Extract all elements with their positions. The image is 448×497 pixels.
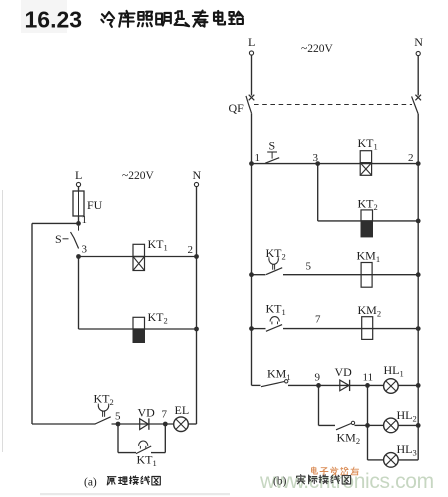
breaker QF dashed link xyxy=(254,104,412,106)
node 7 xyxy=(162,409,168,427)
node 3 (a) xyxy=(76,244,87,259)
wire fuse to node 1 xyxy=(78,216,80,223)
svg-text:2: 2 xyxy=(110,397,114,407)
timed contact KT1 (b) xyxy=(266,302,286,332)
breaker QF pole L xyxy=(246,95,254,114)
switch S (a) xyxy=(55,226,79,249)
diode VD (b) xyxy=(335,365,353,391)
watermark www.cntronics.com xyxy=(259,470,434,493)
svg-text:11: 11 xyxy=(363,372,374,384)
watermark 电子发烧友 (orange) xyxy=(312,467,359,475)
lamp EL xyxy=(174,403,189,432)
fuse FU xyxy=(73,191,103,216)
junction row3-L (b) xyxy=(249,272,254,277)
svg-text:(b): (b) xyxy=(273,476,287,488)
wire branch node5 down xyxy=(118,424,136,453)
svg-text:VD: VD xyxy=(335,365,353,379)
wire node3 down (b) xyxy=(317,164,319,221)
contact KM2 (NO) xyxy=(336,421,360,446)
svg-text:VD: VD xyxy=(138,406,156,420)
title text 冷库照明延寿电路 xyxy=(101,11,243,27)
label ~220V (left circuit) xyxy=(122,170,154,182)
svg-text:EL: EL xyxy=(175,403,190,417)
lamp HL3 xyxy=(384,442,417,467)
svg-text:N: N xyxy=(414,35,423,49)
junction KT2-N (b) xyxy=(416,219,421,224)
contactor coil KM2 xyxy=(358,303,382,339)
wire KM2 contact to node11 column xyxy=(355,424,368,426)
svg-text:L: L xyxy=(75,168,82,182)
relay coil KT2 (b) xyxy=(358,197,378,237)
wire bottom row (a) xyxy=(32,423,197,425)
svg-text:3: 3 xyxy=(313,152,319,164)
wire L rail (b) xyxy=(251,113,253,385)
wire row4 (b) xyxy=(252,328,419,330)
junction row3-N (b) xyxy=(416,272,421,277)
svg-text:(a): (a) xyxy=(84,477,97,489)
wire left rail (a) xyxy=(31,223,33,424)
svg-text:KT: KT xyxy=(94,392,111,406)
wire N rail top (b) xyxy=(417,56,419,96)
junction HL2-N xyxy=(416,423,421,428)
junction row4-N (b) xyxy=(416,326,421,331)
wire branch to node7 xyxy=(151,424,165,453)
relay coil KT2 (a) xyxy=(133,310,168,343)
wire N rail (a) xyxy=(196,187,198,424)
relay coil KT1 (b) xyxy=(358,136,378,175)
timed contact KT1 (a) xyxy=(136,441,157,468)
lamp HL2 xyxy=(384,408,417,433)
relay coil KT1 (a) xyxy=(133,237,168,271)
timed contact KT2 (b) xyxy=(266,246,286,275)
lamp HL1 xyxy=(384,363,404,393)
scan artifact shading xyxy=(3,0,231,495)
wire HL2 row xyxy=(368,424,419,426)
diode VD (a) xyxy=(138,406,156,430)
svg-text:16.23: 16.23 xyxy=(25,7,83,33)
wire N rail (b) xyxy=(417,114,419,460)
svg-text:5: 5 xyxy=(115,411,121,423)
node 11 xyxy=(363,372,374,388)
node L (left circuit) terminal and label xyxy=(75,168,82,191)
node 9 xyxy=(315,372,321,388)
junction row5-N (b) xyxy=(416,383,421,388)
wire node9 down xyxy=(319,385,336,425)
svg-text:7: 7 xyxy=(315,314,321,326)
svg-text:1: 1 xyxy=(82,214,88,226)
svg-text:S: S xyxy=(55,232,62,246)
breaker QF pole N xyxy=(412,95,421,114)
caption (b) 实际接线图 xyxy=(273,475,351,488)
node L (right circuit) xyxy=(248,35,255,55)
node 5 xyxy=(115,411,121,427)
node 1 junction xyxy=(76,214,87,226)
svg-text:FU: FU xyxy=(87,198,103,212)
svg-text:QF: QF xyxy=(229,101,245,115)
contact KM1 (NO) xyxy=(261,367,291,387)
label QF xyxy=(229,101,245,115)
svg-text:2: 2 xyxy=(188,244,194,256)
junction KT2-N (a) xyxy=(194,327,199,332)
label node 5 (b) xyxy=(306,261,312,273)
timed contact KT2 (a) xyxy=(94,392,114,425)
pushbutton S (b) xyxy=(265,139,279,164)
node 2 (b) xyxy=(408,152,421,166)
wire row2 (b) xyxy=(318,220,419,222)
svg-text:~220V: ~220V xyxy=(301,43,333,55)
wire row5 (b) xyxy=(252,384,419,386)
node 1 (b) xyxy=(249,152,260,166)
node N (right circuit) xyxy=(414,35,423,56)
svg-text:S: S xyxy=(269,139,276,153)
svg-text:3: 3 xyxy=(82,244,88,256)
svg-text:5: 5 xyxy=(306,261,312,273)
wire row3 (b) xyxy=(252,274,419,276)
title number 16.23 xyxy=(25,7,83,33)
svg-text:7: 7 xyxy=(162,409,168,421)
svg-text:9: 9 xyxy=(315,372,321,384)
node N (left circuit) terminal and label xyxy=(193,168,202,187)
node 2 (a) xyxy=(188,244,199,259)
wire row KT1 (a) xyxy=(79,256,197,258)
wire node3 down (a) xyxy=(78,257,80,330)
caption (a) 原理接线图 xyxy=(84,476,160,489)
contactor coil KM1 xyxy=(357,249,381,288)
wire L rail top (b) xyxy=(251,55,253,95)
svg-text:N: N xyxy=(193,168,202,182)
svg-text:~220V: ~220V xyxy=(122,170,154,182)
node 3 (b) xyxy=(313,152,321,166)
wire row KT2 (a) xyxy=(79,328,197,330)
wire node1 to left rail xyxy=(32,222,79,224)
svg-text:1: 1 xyxy=(255,152,261,164)
wire HL3 row xyxy=(368,459,419,461)
junction row4-L (b) xyxy=(249,326,254,331)
label node 7 (b) xyxy=(315,314,321,326)
svg-text:2: 2 xyxy=(408,152,414,164)
wire node11 down xyxy=(367,385,369,460)
wire row1 (b) xyxy=(252,163,419,165)
svg-text:L: L xyxy=(248,35,255,49)
label ~220V (right circuit) xyxy=(301,43,333,55)
junction HL2 row xyxy=(365,423,370,428)
